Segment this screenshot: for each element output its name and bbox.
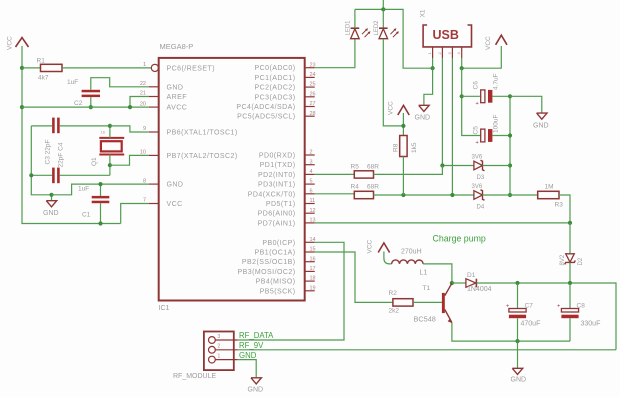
node junction R8 bottom <box>401 193 405 197</box>
svg-text:LED2: LED2 <box>374 20 380 36</box>
IC1 right pins <box>236 62 315 295</box>
svg-text:PD5(T1): PD5(T1) <box>266 201 296 208</box>
capacitor C8 330uF <box>557 283 600 341</box>
svg-text:R2: R2 <box>389 290 398 297</box>
svg-text:C7: C7 <box>525 303 534 310</box>
svg-text:26: 26 <box>310 91 316 97</box>
wire to pin9 <box>110 126 149 132</box>
svg-text:MEGA8-P: MEGA8-P <box>160 42 194 51</box>
svg-text:4k7: 4k7 <box>38 75 49 82</box>
svg-text:21: 21 <box>140 91 146 97</box>
power VCC charge pump <box>367 239 390 253</box>
svg-text:18: 18 <box>310 276 316 282</box>
node junction collector <box>450 281 454 285</box>
wire AREF jog <box>130 97 149 108</box>
node junction C6 left <box>460 94 464 98</box>
wire GND to pin8 <box>52 184 149 195</box>
wire to pin10 <box>110 155 149 165</box>
node junction USB pin1 <box>431 66 435 70</box>
svg-text:270uH: 270uH <box>401 248 422 255</box>
node junction C1 top <box>98 182 102 186</box>
connector X1 USB <box>420 9 472 58</box>
svg-text:2k2: 2k2 <box>389 307 400 314</box>
svg-text:GND: GND <box>167 182 184 189</box>
svg-text:LED1: LED1 <box>346 20 352 36</box>
svg-text:Charge pump: Charge pump <box>433 234 486 244</box>
wire LED2 down to VCC node <box>383 39 403 126</box>
capacitor C4 22pF <box>31 118 110 168</box>
svg-text:PB2(SS/OC1B): PB2(SS/OC1B) <box>242 259 296 266</box>
node junction LED2 top <box>381 7 385 11</box>
node junction GND col D3 <box>508 163 512 167</box>
svg-text:20: 20 <box>140 101 146 107</box>
node junction D2/C8 <box>568 281 572 285</box>
svg-text:2: 2 <box>310 150 313 156</box>
svg-text:22: 22 <box>140 81 146 87</box>
svg-text:1uF: 1uF <box>67 79 78 86</box>
svg-text:7: 7 <box>143 198 146 204</box>
svg-text:VCC: VCC <box>7 36 14 50</box>
wire LED top rail <box>355 9 433 68</box>
svg-text:4: 4 <box>310 169 313 175</box>
svg-text:68R: 68R <box>367 163 379 170</box>
svg-text:PC6(/RESET): PC6(/RESET) <box>167 65 216 72</box>
node junction VCC/AVCC row <box>20 105 24 109</box>
svg-text:10: 10 <box>140 150 146 156</box>
svg-text:PB3(MOSI/OC2): PB3(MOSI/OC2) <box>238 269 296 276</box>
diode D3 3V6 zener <box>442 155 510 182</box>
svg-text:R1: R1 <box>37 58 46 65</box>
svg-text:4.7uF: 4.7uF <box>493 73 500 90</box>
svg-text:C1: C1 <box>82 212 91 219</box>
svg-text:PD2(INT0): PD2(INT0) <box>258 172 296 179</box>
svg-text:8: 8 <box>143 178 146 184</box>
svg-text:PB6(XTAL1/TOSC1): PB6(XTAL1/TOSC1) <box>167 130 238 137</box>
capacitor C1 1uF <box>78 184 109 223</box>
svg-text:D3: D3 <box>477 175 485 181</box>
svg-text:PD0(RXD): PD0(RXD) <box>259 153 296 160</box>
svg-text:VCC: VCC <box>367 239 374 253</box>
svg-text:D4: D4 <box>477 205 485 211</box>
svg-text:GND: GND <box>43 210 59 217</box>
svg-text:25: 25 <box>310 82 316 88</box>
diode D1 1N4004 <box>452 272 518 293</box>
svg-text:D2: D2 <box>578 257 584 265</box>
svg-text:RF_9V: RF_9V <box>239 341 264 350</box>
wire USB pin3 (D+) <box>451 58 453 195</box>
svg-text:5: 5 <box>310 179 313 185</box>
svg-text:AREF: AREF <box>167 94 187 101</box>
resistor R5 68R <box>315 163 443 178</box>
diode D4 3V6 zener <box>452 184 510 211</box>
svg-text:GND: GND <box>248 386 264 393</box>
wire GND column <box>509 96 511 195</box>
node junction USB pin4 <box>460 66 464 70</box>
svg-text:PD7(AIN1): PD7(AIN1) <box>258 220 296 227</box>
svg-text:PC5(ADC5/SCL): PC5(ADC5/SCL) <box>237 114 295 121</box>
node junction GND left <box>49 193 53 197</box>
svg-text:PC4(ADC4/SDA): PC4(ADC4/SDA) <box>236 104 295 111</box>
svg-text:+: + <box>476 140 479 146</box>
svg-text:1N4004: 1N4004 <box>467 286 492 293</box>
svg-text:T1: T1 <box>423 285 431 292</box>
svg-text:D1: D1 <box>467 272 476 279</box>
svg-text:PC0(ADC0): PC0(ADC0) <box>254 65 295 72</box>
wire USB pin1 <box>432 58 434 68</box>
svg-text:VCC: VCC <box>167 201 183 208</box>
svg-text:3V6: 3V6 <box>472 155 483 161</box>
svg-text:28: 28 <box>310 111 316 117</box>
ground GND at USB <box>415 68 433 121</box>
svg-text:VCC: VCC <box>388 101 395 115</box>
wire VCC column <box>462 68 481 135</box>
svg-text:PB1(OC1A): PB1(OC1A) <box>254 250 295 257</box>
svg-text:19: 19 <box>310 285 316 291</box>
wire VCC rail left vertical <box>22 46 121 224</box>
svg-text:X1: X1 <box>420 9 427 17</box>
svg-text:GND: GND <box>511 376 527 383</box>
node junction C7 top <box>515 281 519 285</box>
svg-text:470uF: 470uF <box>521 321 541 328</box>
node junction GND col D4 <box>508 193 512 197</box>
svg-text:1k5: 1k5 <box>411 142 418 153</box>
ground GND charge pump <box>511 341 527 383</box>
node junction AREF/AVCC <box>128 105 132 109</box>
connector RF_MODULE <box>173 332 238 381</box>
svg-text:PB4(MISO): PB4(MISO) <box>256 279 296 286</box>
svg-text:RF_DATA: RF_DATA <box>239 331 274 340</box>
svg-text:RF_MODULE: RF_MODULE <box>173 373 217 380</box>
node junction GND rail <box>515 339 519 343</box>
svg-text:9: 9 <box>143 126 146 132</box>
resistor R2 2k2 <box>389 290 443 314</box>
ground GND right <box>510 96 549 129</box>
IC IC1 MEGA8-P <box>159 42 305 312</box>
svg-text:GND: GND <box>533 122 549 129</box>
svg-text:16: 16 <box>310 256 316 262</box>
inductor L1 270uH <box>384 248 452 283</box>
wire emitter to GND rail <box>452 323 570 342</box>
svg-text:USB: USB <box>433 28 459 42</box>
node junction C2 bottom <box>89 105 93 109</box>
svg-text:R8: R8 <box>393 143 400 152</box>
node junction C1 bottom <box>98 221 102 225</box>
svg-text:PC1(ADC1): PC1(ADC1) <box>254 75 295 82</box>
LED LED2 <box>374 9 399 38</box>
LED LED1 <box>346 9 371 38</box>
svg-text:PB7(XTAL2/TOSC2): PB7(XTAL2/TOSC2) <box>167 153 238 160</box>
svg-text:GND: GND <box>167 84 184 91</box>
wire USB pin2 (D-) <box>441 58 443 166</box>
svg-text:BC548: BC548 <box>414 314 436 323</box>
node junction GND col C6 <box>508 94 512 98</box>
node junction C3 row <box>29 173 33 177</box>
svg-text:16: 16 <box>101 130 106 135</box>
resistor R3 1M <box>510 184 570 224</box>
node junction D+ net <box>450 193 454 197</box>
svg-text:R4: R4 <box>351 184 360 191</box>
svg-text:PB0(ICP): PB0(ICP) <box>262 240 295 247</box>
capacitor C3 22pF <box>31 168 110 184</box>
node junction divider <box>568 221 572 225</box>
svg-text:PD6(AIN0): PD6(AIN0) <box>258 211 296 218</box>
capacitor C5 100uF <box>473 115 511 146</box>
wire pin14 to RF_DATA <box>238 242 344 340</box>
wire AVCC row <box>22 106 149 108</box>
svg-text:24: 24 <box>310 72 316 78</box>
svg-text:+: + <box>557 303 560 309</box>
svg-text:22pF C4: 22pF C4 <box>58 142 65 167</box>
wire RF_9V rail <box>238 349 616 351</box>
svg-text:1: 1 <box>218 353 221 359</box>
svg-text:1uF: 1uF <box>78 185 89 192</box>
wire pin7 VCC <box>121 204 149 224</box>
wire USB pin4 to VCC <box>461 58 463 68</box>
svg-text:VCC: VCC <box>485 36 492 50</box>
svg-text:+: + <box>476 101 479 107</box>
svg-text:PB5(SCK): PB5(SCK) <box>260 288 296 295</box>
power VCC pullup <box>388 101 410 115</box>
node junction VCC/LED2/R8 <box>401 124 405 128</box>
resistor R8 1k5 <box>393 113 419 195</box>
wire pin13 to divider <box>315 222 570 224</box>
svg-text:C2: C2 <box>74 100 83 107</box>
wire pin15 to R2 <box>315 252 393 302</box>
node junction D- net <box>440 163 444 167</box>
diode D2 8V2 zener <box>560 223 584 283</box>
resistor R1 4k7 <box>22 58 151 82</box>
svg-text:100uF: 100uF <box>493 115 500 133</box>
svg-text:6: 6 <box>310 188 313 194</box>
svg-text:+: + <box>506 303 509 309</box>
capacitor C6 4.7uF <box>462 73 510 106</box>
ground GND at RF module <box>238 360 263 394</box>
svg-text:C8: C8 <box>577 303 586 310</box>
svg-text:GND: GND <box>415 114 431 121</box>
ground GND left <box>43 195 59 217</box>
svg-text:C6: C6 <box>473 81 480 90</box>
svg-text:Q1: Q1 <box>91 157 98 166</box>
svg-text:C5: C5 <box>473 126 480 135</box>
svg-text:PD4(XCK/T0): PD4(XCK/T0) <box>248 191 296 198</box>
svg-text:12: 12 <box>310 208 316 214</box>
svg-text:PC2(ADC2): PC2(ADC2) <box>254 85 295 92</box>
svg-text:C3 22pF: C3 22pF <box>45 140 52 165</box>
transistor T1 BC548 <box>414 283 453 323</box>
svg-text:11: 11 <box>310 198 316 204</box>
wire pin23 to LED1 <box>315 39 355 68</box>
node junction XTAL2 <box>108 163 112 167</box>
svg-text:R5: R5 <box>351 163 360 170</box>
node junction GND col C5 <box>508 133 512 137</box>
capacitor C7 470uF <box>506 283 540 341</box>
wire C3/C4 left vertical <box>31 126 51 195</box>
svg-text:AVCC: AVCC <box>167 105 188 112</box>
svg-text:27: 27 <box>310 101 316 107</box>
svg-text:IC1: IC1 <box>159 305 170 312</box>
svg-text:3V6: 3V6 <box>472 184 483 190</box>
power VCC symbol top-left <box>7 36 29 50</box>
wire stub to top edge <box>382 0 384 9</box>
svg-text:3: 3 <box>310 159 313 165</box>
IC1 left pins <box>140 62 238 208</box>
svg-text:68R: 68R <box>367 184 379 191</box>
svg-text:PC3(ADC3): PC3(ADC3) <box>254 94 295 101</box>
svg-text:GND: GND <box>239 351 257 360</box>
svg-text:PD3(INT1): PD3(INT1) <box>258 182 296 189</box>
svg-text:330uF: 330uF <box>581 321 601 328</box>
svg-text:1: 1 <box>143 62 146 68</box>
svg-text:3: 3 <box>218 334 221 340</box>
node junction VCC/R1 <box>20 66 24 70</box>
svg-text:17: 17 <box>310 266 316 272</box>
resistor R4 68R <box>315 184 453 199</box>
capacitor C2 1uF <box>67 78 149 107</box>
svg-text:1M: 1M <box>545 184 554 191</box>
power VCC at USB <box>485 35 507 50</box>
wire output rail A <box>518 283 617 350</box>
svg-text:R3: R3 <box>555 201 564 208</box>
svg-text:PD1(TXD): PD1(TXD) <box>260 162 296 169</box>
crystal Q1 <box>91 126 124 175</box>
svg-text:8V2: 8V2 <box>560 254 566 265</box>
svg-text:2: 2 <box>218 344 221 350</box>
node junction XTAL1 <box>108 124 112 128</box>
svg-text:L1: L1 <box>420 269 428 276</box>
